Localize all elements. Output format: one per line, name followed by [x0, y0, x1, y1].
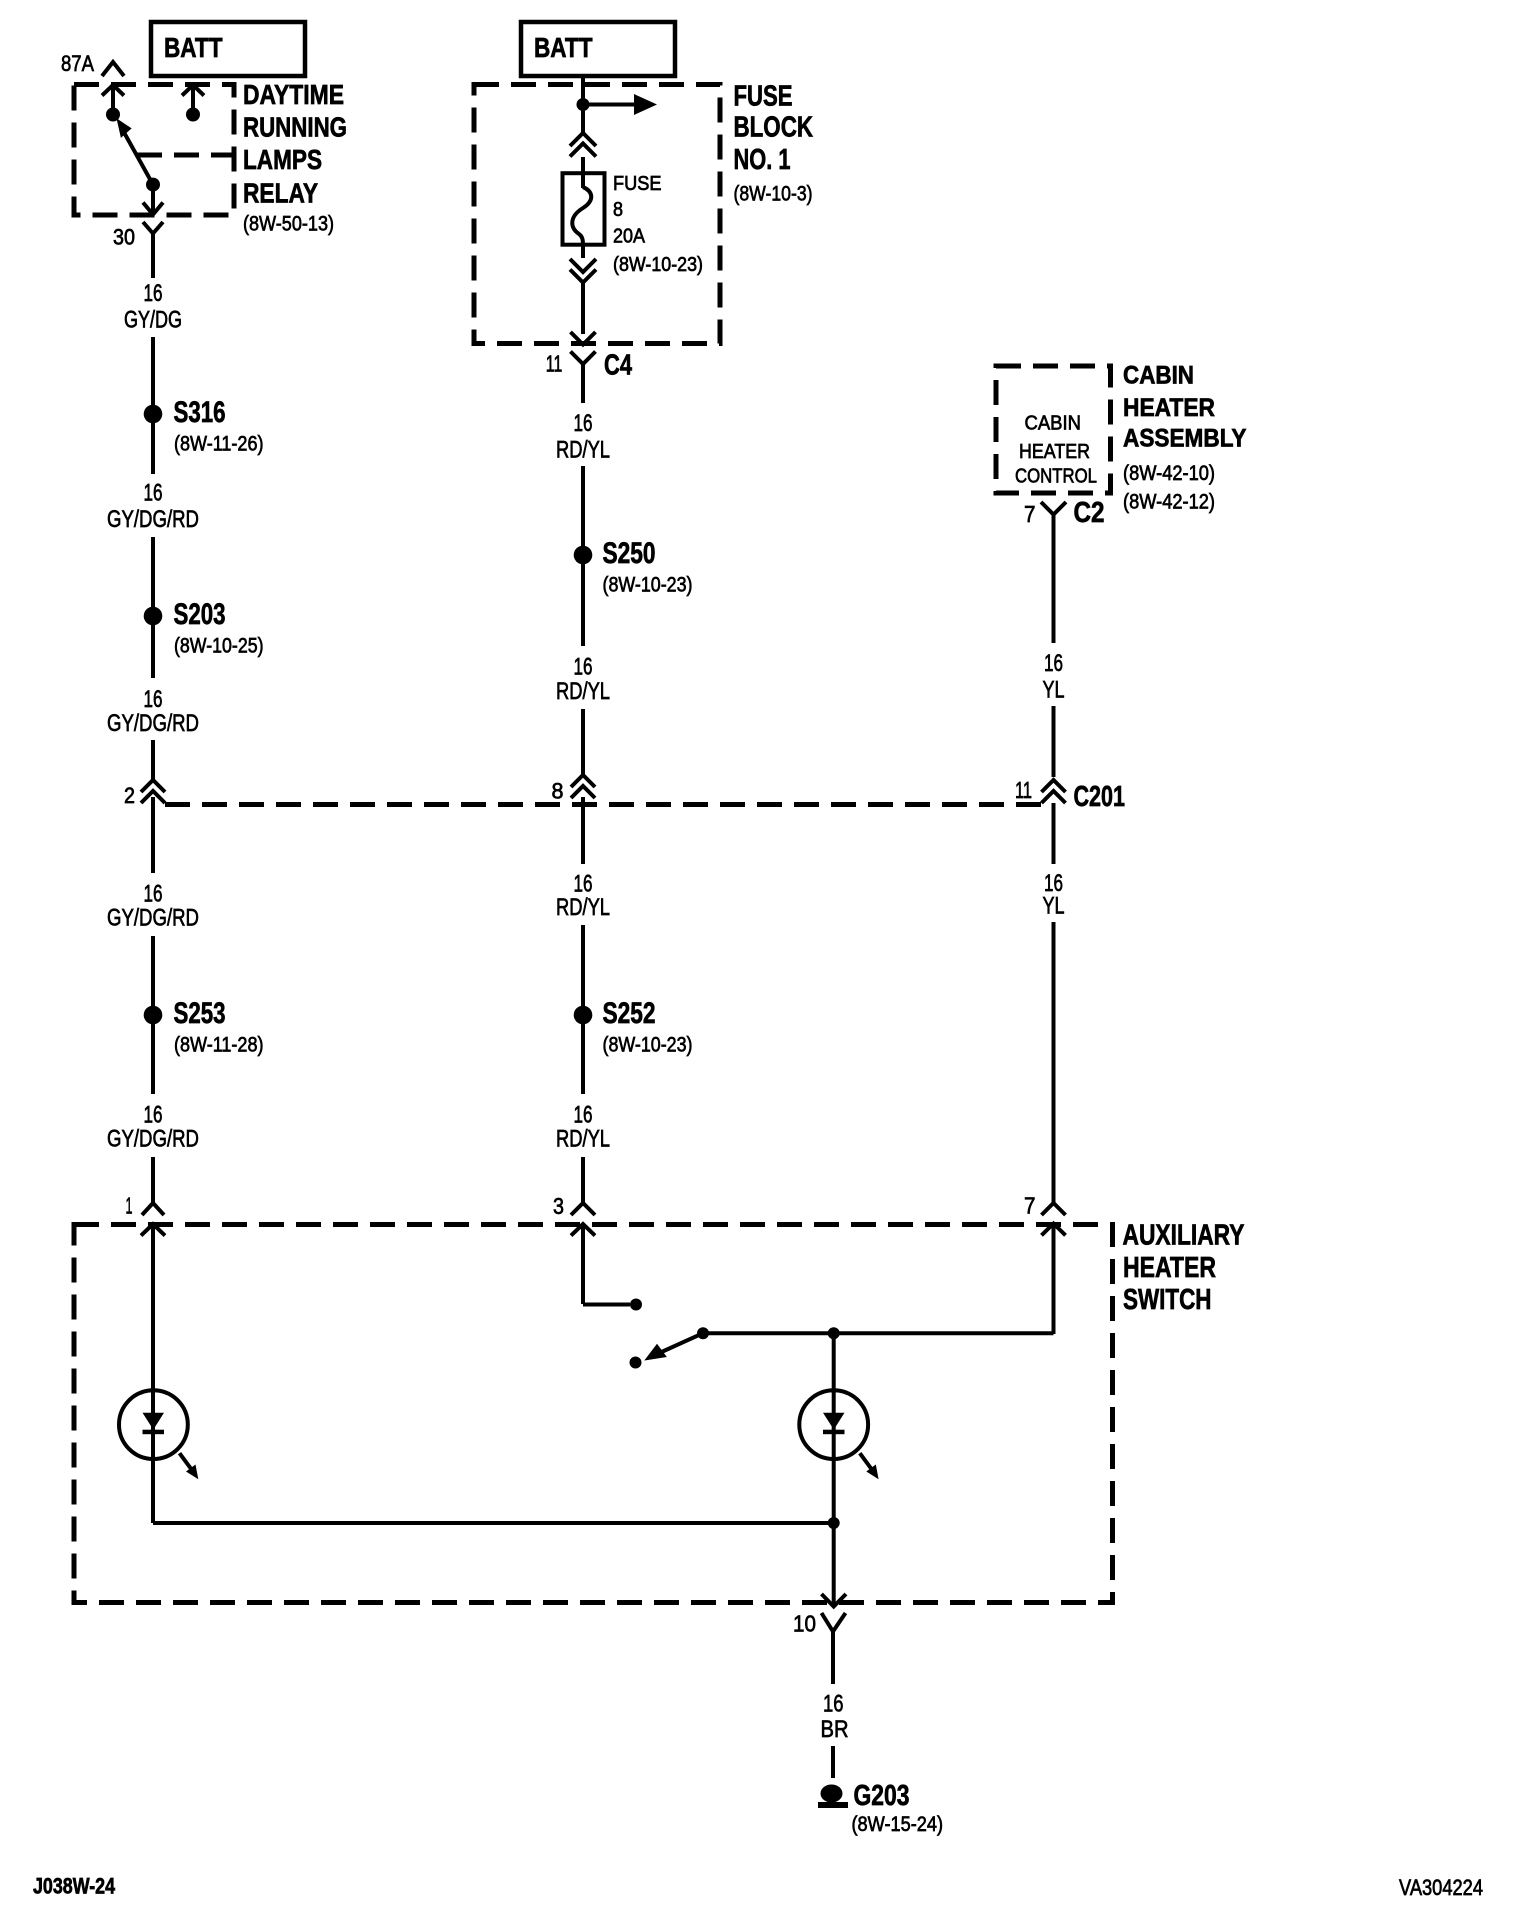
- auxiliary heater switch dashed box: [74, 1225, 1113, 1603]
- relay switch armature: [118, 121, 160, 192]
- in-line connector chevrons (fuse block feed): [570, 133, 596, 157]
- wire to connector C201 pin 8: [581, 709, 585, 776]
- CABIN HEATER ASSEMBLY label: [1123, 362, 1247, 514]
- svg-text:CABIN: CABIN: [1123, 362, 1194, 390]
- splice S252: [574, 997, 693, 1056]
- svg-text:HEATER: HEATER: [1019, 441, 1090, 463]
- wire label 16 RD/YL: [556, 1102, 610, 1153]
- wire below C201 left: [151, 797, 155, 873]
- svg-text:8: 8: [552, 779, 564, 804]
- wire label 16 GY/DG: [124, 280, 182, 334]
- svg-text:BATT: BATT: [164, 32, 223, 63]
- wire below C201 right: [1052, 803, 1056, 864]
- svg-text:RD/YL: RD/YL: [556, 437, 610, 464]
- svg-text:16: 16: [823, 1691, 844, 1718]
- wire to connector C201 pin 2: [151, 740, 155, 781]
- svg-text:HEATER: HEATER: [1123, 1252, 1216, 1284]
- svg-text:S253: S253: [174, 997, 226, 1030]
- arrow into switch pin 1: [141, 1224, 165, 1391]
- svg-text:16: 16: [144, 881, 163, 908]
- BATT feed box (middle): [521, 22, 675, 76]
- svg-text:16: 16: [144, 686, 163, 713]
- switch contact node (from pin 3): [630, 1299, 642, 1311]
- arrow into switch pin 7: [1042, 1224, 1066, 1335]
- switch armature with arrow: [646, 1327, 709, 1359]
- svg-text:(8W-15-24): (8W-15-24): [852, 1813, 944, 1836]
- wire label 16 RD/YL: [556, 654, 610, 706]
- svg-text:LAMPS: LAMPS: [243, 144, 322, 175]
- wire to switch pin 10: [832, 1523, 836, 1604]
- wire from pin 3 to switch contact: [583, 1303, 630, 1307]
- AUXILIARY HEATER SWITCH label: [1123, 1220, 1245, 1317]
- wire below S253: [151, 1024, 155, 1094]
- fuse 8 wavy element: [572, 187, 591, 245]
- svg-text:(8W-10-25): (8W-10-25): [174, 634, 264, 657]
- wire to splice S316: [151, 337, 155, 405]
- svg-text:16: 16: [1044, 650, 1063, 677]
- svg-text:10: 10: [793, 1611, 816, 1637]
- splice S203: [144, 598, 264, 657]
- wire into auxiliary heater switch pin 3: [581, 1157, 585, 1203]
- svg-text:20A: 20A: [613, 226, 646, 248]
- wire to splice S250: [581, 466, 585, 546]
- svg-text:CABIN: CABIN: [1025, 413, 1082, 435]
- svg-text:DAYTIME: DAYTIME: [243, 79, 344, 110]
- wire 16 YL below C2: [1052, 515, 1056, 644]
- svg-text:YL: YL: [1043, 677, 1065, 704]
- wire junction down to right LED: [832, 1333, 836, 1391]
- svg-text:BLOCK: BLOCK: [734, 112, 814, 144]
- svg-text:GY/DG/RD: GY/DG/RD: [107, 1126, 199, 1153]
- connector chevron at switch pin 3: [571, 1203, 595, 1215]
- wire into fuse 8: [581, 157, 585, 188]
- BATT feed box (left): [151, 22, 305, 76]
- fuse block no.1 dashed box: [474, 85, 720, 344]
- svg-text:RD/YL: RD/YL: [556, 678, 610, 705]
- svg-text:(8W-42-12): (8W-42-12): [1123, 491, 1215, 514]
- arrow into switch pin 3: [571, 1224, 595, 1304]
- fuse 8 element box: [563, 173, 605, 245]
- wire below S316: [151, 423, 155, 474]
- relay pin 30 exit wire and arrow: [143, 190, 163, 215]
- svg-text:YL: YL: [1043, 893, 1065, 920]
- svg-text:30: 30: [113, 225, 135, 250]
- svg-text:(8W-11-26): (8W-11-26): [174, 433, 264, 456]
- wire 16 GY/DG: [151, 234, 155, 279]
- relay pin BATT terminal arrow: [182, 85, 204, 122]
- connector Y below pin 10: [822, 1613, 846, 1684]
- svg-text:(8W-42-10): (8W-42-10): [1123, 462, 1215, 485]
- svg-text:7: 7: [1024, 1193, 1036, 1219]
- junction node in fuse block: [577, 98, 590, 111]
- connector C2 Y symbol: [1041, 502, 1066, 540]
- wire to connector C201 pin 11: [1052, 706, 1056, 777]
- svg-text:7: 7: [1024, 501, 1036, 527]
- CABIN HEATER CONTROL inner label: [1015, 413, 1097, 488]
- wire to splice S203: [151, 537, 155, 607]
- wire label 16 GY/DG/RD: [107, 480, 199, 534]
- svg-text:RD/YL: RD/YL: [556, 1126, 610, 1153]
- junction node above right LED: [828, 1327, 840, 1339]
- arrow out of switch at pin 10: [822, 1594, 847, 1607]
- wire label 16 YL: [1043, 870, 1065, 920]
- wire label 16 RD/YL: [556, 871, 610, 922]
- svg-text:16: 16: [574, 654, 593, 681]
- arrow out of fuse block at C4: [571, 332, 596, 345]
- svg-text:16: 16: [144, 480, 163, 507]
- FUSE BLOCK NO. 1 label: [734, 81, 814, 206]
- svg-text:16: 16: [144, 280, 163, 307]
- relay pin 87A terminal arrow: [102, 85, 124, 122]
- svg-text:SWITCH: SWITCH: [1123, 1284, 1212, 1316]
- svg-text:(8W-10-23): (8W-10-23): [613, 254, 703, 276]
- connector C4 Y symbol: [571, 352, 596, 391]
- svg-text:S203: S203: [174, 598, 226, 631]
- svg-text:FUSE: FUSE: [613, 173, 662, 195]
- svg-text:11: 11: [546, 351, 563, 377]
- connector chevron at switch pin 7: [1042, 1203, 1066, 1215]
- svg-text:(8W-10-23): (8W-10-23): [603, 1033, 693, 1056]
- svg-text:C201: C201: [1074, 781, 1126, 813]
- splice S253: [144, 997, 264, 1056]
- connector chevron above relay pin 87A: [102, 62, 124, 76]
- svg-text:11: 11: [1015, 777, 1032, 803]
- wire label 16 RD/YL: [556, 410, 610, 464]
- wire below S203: [151, 625, 155, 678]
- svg-text:RD/YL: RD/YL: [556, 894, 610, 921]
- svg-text:(8W-10-3): (8W-10-3): [734, 183, 813, 206]
- bottom wire joining LEDs: [153, 1521, 834, 1525]
- wire to C4 exit arrow: [581, 283, 585, 334]
- svg-text:FUSE: FUSE: [734, 81, 793, 113]
- DAYTIME RUNNING LAMPS RELAY label: [243, 79, 347, 236]
- splice S250: [574, 537, 693, 596]
- svg-text:1: 1: [126, 1193, 133, 1219]
- svg-text:BATT: BATT: [534, 32, 593, 63]
- wire to splice S253: [151, 936, 155, 1006]
- wire label 16 GY/DG/RD: [107, 686, 199, 737]
- svg-text:87A: 87A: [61, 51, 94, 76]
- wire into auxiliary heater switch pin 1: [151, 1157, 155, 1203]
- connector C201 pin 2 chevrons: [141, 780, 165, 803]
- svg-text:GY/DG/RD: GY/DG/RD: [107, 905, 199, 932]
- svg-text:ASSEMBLY: ASSEMBLY: [1123, 425, 1247, 453]
- svg-text:AUXILIARY: AUXILIARY: [1123, 1220, 1245, 1252]
- connector C201 pin 8 chevrons: [571, 775, 595, 798]
- connector chevron at switch pin 1: [142, 1203, 164, 1215]
- wire below S250: [581, 564, 585, 646]
- svg-text:CONTROL: CONTROL: [1015, 466, 1097, 488]
- wire below S252: [581, 1024, 585, 1094]
- wire from BATT into fuse block: [581, 76, 585, 133]
- svg-text:RUNNING: RUNNING: [243, 112, 347, 143]
- cabin heater control dashed box: [996, 366, 1111, 493]
- wire to splice S252: [581, 925, 585, 1006]
- wire 16 RD/YL below C4: [581, 364, 585, 403]
- connector C201 dashed line: [165, 802, 1041, 807]
- LED indicator left: [119, 1390, 198, 1523]
- svg-text:S252: S252: [603, 997, 656, 1030]
- ground G203 symbol: [818, 1780, 943, 1836]
- wire to ground G203: [831, 1746, 835, 1778]
- wire label 16 BR: [821, 1691, 849, 1744]
- svg-text:HEATER: HEATER: [1123, 394, 1215, 422]
- svg-text:16: 16: [144, 1102, 163, 1129]
- svg-text:2: 2: [124, 783, 135, 808]
- svg-text:3: 3: [553, 1193, 564, 1219]
- svg-text:GY/DG: GY/DG: [124, 307, 182, 334]
- wire below C201 middle: [581, 797, 585, 864]
- svg-text:G203: G203: [854, 1780, 910, 1812]
- connector Y below relay pin 30: [143, 222, 163, 260]
- svg-text:VA304224: VA304224: [1399, 1875, 1483, 1900]
- LED indicator right: [799, 1390, 878, 1523]
- svg-text:J038W-24: J038W-24: [33, 1874, 116, 1899]
- svg-text:NO. 1: NO. 1: [734, 144, 791, 176]
- svg-text:GY/DG/RD: GY/DG/RD: [107, 506, 199, 533]
- svg-text:BR: BR: [821, 1716, 849, 1743]
- svg-text:(8W-10-23): (8W-10-23): [603, 573, 693, 596]
- svg-text:16: 16: [574, 410, 593, 437]
- svg-text:8: 8: [613, 199, 623, 221]
- svg-text:S316: S316: [174, 396, 226, 429]
- switch lower contact node: [630, 1357, 642, 1369]
- wire label 16 GY/DG/RD: [107, 881, 199, 932]
- svg-text:16: 16: [574, 1102, 593, 1129]
- junction node below right LED: [828, 1517, 840, 1529]
- splice S316: [144, 396, 264, 456]
- in-line connector chevrons below fuse: [570, 259, 596, 283]
- wire from switch pivot to pin 7 leg: [703, 1331, 1054, 1335]
- svg-text:(8W-11-28): (8W-11-28): [174, 1033, 264, 1056]
- svg-text:RELAY: RELAY: [243, 177, 318, 208]
- relay K1 daytime running lamps relay dashed box: [74, 85, 234, 216]
- svg-text:C2: C2: [1074, 497, 1105, 529]
- svg-text:(8W-50-13): (8W-50-13): [243, 213, 334, 236]
- wire label 16 GY/DG/RD: [107, 1102, 199, 1153]
- wire label 16 YL: [1043, 650, 1065, 704]
- relay internal dashed line: [137, 153, 234, 158]
- connector C201 pin 11 chevrons: [1042, 780, 1066, 803]
- svg-text:GY/DG/RD: GY/DG/RD: [107, 710, 199, 737]
- FUSE 8 20A label: [613, 173, 703, 276]
- svg-text:S250: S250: [603, 537, 656, 570]
- wire below fuse: [581, 245, 585, 258]
- svg-text:C4: C4: [604, 350, 632, 382]
- wire into auxiliary heater switch pin 7: [1052, 922, 1056, 1203]
- branch arrow to other circuits: [583, 94, 657, 115]
